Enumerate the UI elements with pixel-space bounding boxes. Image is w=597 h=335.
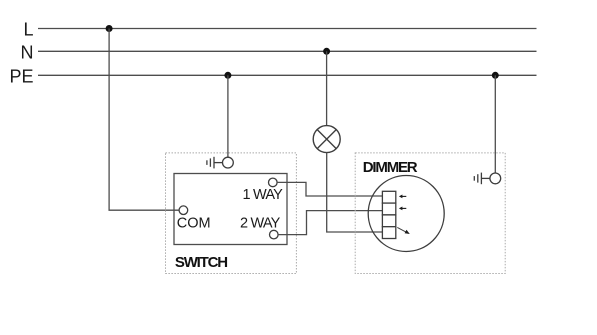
junction on N [323,48,330,55]
svg-text:COM: COM [177,216,211,232]
wire N to lamp [326,51,328,125]
junction on PE (switch) [224,72,231,79]
wire N bus [38,50,537,52]
wire PE to switch earth [227,75,229,157]
svg-text:PE: PE [9,66,33,86]
dimmer enclosure (dashed) [355,153,505,274]
dimmer terminal block [382,191,395,238]
switch body [174,174,287,245]
switch enclosure (dashed) [166,153,297,274]
wire L to COM [109,29,179,211]
terminal COM [179,206,188,215]
terminal 2 WAY [270,230,279,239]
junction on PE (dimmer) [492,72,499,79]
dimmer arrow terminal 1 [399,195,406,199]
dimmer adjust arrow terminal 4 [397,227,410,234]
wire PE to dimmer earth [494,75,496,173]
wire 2WAY to dimmer terminal 2 [278,211,382,235]
dimmer arrow terminal 2 [399,207,406,211]
wire 1WAY to dimmer terminal 1 [277,182,382,196]
svg-text:DIMMER: DIMMER [363,159,418,176]
junction on L [106,25,113,32]
svg-text:N: N [21,42,34,62]
svg-text:SWITCH: SWITCH [175,254,227,271]
wire PE bus [38,74,537,76]
svg-text:2 WAY: 2 WAY [240,216,281,232]
dimmer earth symbol [474,173,500,185]
switch earth symbol [207,157,233,169]
terminal 1 WAY [269,178,278,187]
svg-text:L: L [23,20,33,40]
wire L bus [38,28,537,30]
wire lamp to dimmer terminal 4 [327,153,383,232]
svg-text:1 WAY: 1 WAY [242,187,283,203]
dimmer body circle [368,176,444,252]
lamp E1 [313,126,340,153]
